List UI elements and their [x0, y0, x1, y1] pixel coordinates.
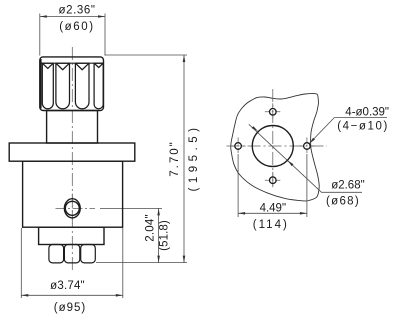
- svg-text:(51.8): (51.8): [159, 220, 171, 251]
- svg-text:(114): (114): [253, 219, 289, 231]
- svg-text:4.49": 4.49": [260, 203, 286, 215]
- svg-text:ø2.68": ø2.68": [331, 180, 365, 192]
- svg-text:2.04": 2.04": [145, 214, 157, 241]
- svg-text:4-ø0.39": 4-ø0.39": [345, 107, 389, 119]
- svg-text:(ø68): (ø68): [326, 195, 360, 207]
- svg-text:(ø95): (ø95): [54, 302, 86, 314]
- svg-text:7.70": 7.70": [169, 140, 181, 176]
- svg-text:(195.5): (195.5): [188, 124, 200, 192]
- svg-text:(ø60): (ø60): [59, 21, 94, 33]
- svg-text:ø2.36": ø2.36": [58, 4, 95, 16]
- svg-text:(4−ø10): (4−ø10): [337, 120, 389, 132]
- svg-text:ø3.74": ø3.74": [50, 280, 85, 292]
